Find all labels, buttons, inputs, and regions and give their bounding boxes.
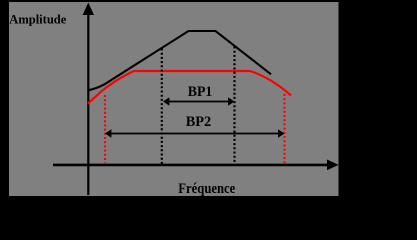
red dotted line f4 (right edge of BP2)	[283, 94, 285, 164]
BP1 double arrow	[163, 97, 235, 106]
red dotted line f1 (left edge of BP2)	[104, 95, 106, 164]
BP2 label	[186, 114, 212, 130]
y-axis label Amplitude	[9, 12, 66, 27]
svg-text:BP1: BP1	[188, 84, 213, 100]
svg-text:BP2: BP2	[186, 114, 212, 130]
BP2 double arrow	[105, 129, 285, 138]
black dotted line f3 (right edge of BP1)	[233, 47, 235, 165]
y-axis arrowhead	[83, 3, 94, 16]
x-axis	[53, 164, 328, 167]
x-axis label Fréquence	[178, 181, 235, 197]
black dotted line f2 (left edge of BP1)	[161, 49, 163, 165]
plot area background	[9, 2, 339, 196]
black response curve (wide filter)	[88, 31, 271, 90]
svg-text:Amplitude: Amplitude	[9, 12, 66, 27]
y-axis	[87, 13, 89, 195]
svg-text:Fréquence: Fréquence	[178, 181, 235, 197]
BP1 label	[188, 84, 213, 100]
x-axis arrowhead	[327, 160, 339, 171]
red response curve (narrow filter)	[88, 71, 291, 104]
